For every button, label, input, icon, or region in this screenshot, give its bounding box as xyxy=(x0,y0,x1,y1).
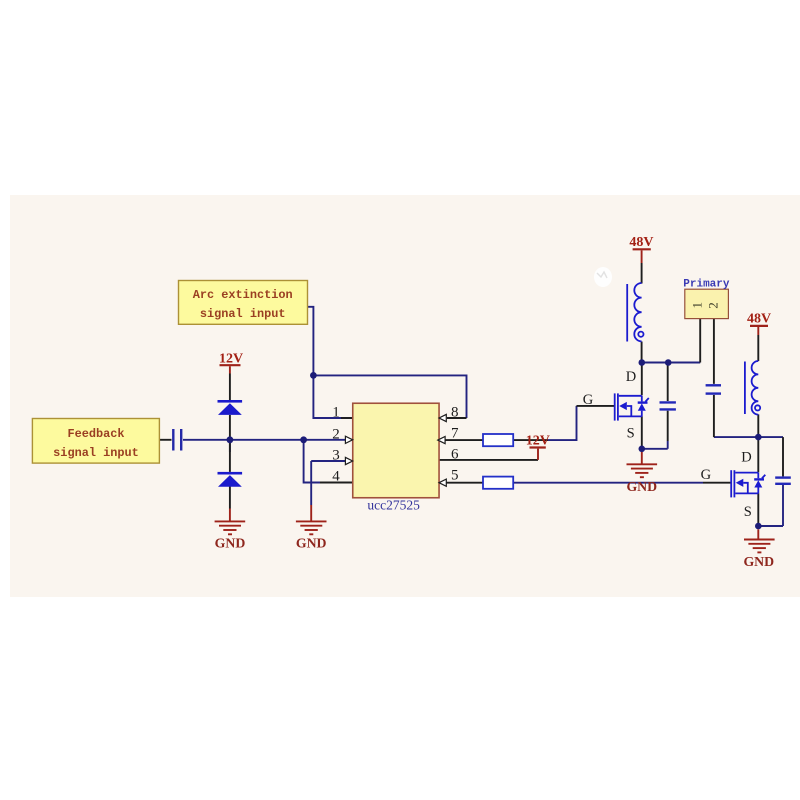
svg-text:1: 1 xyxy=(690,302,705,309)
svg-text:signal input: signal input xyxy=(200,307,286,321)
svg-text:48V: 48V xyxy=(629,235,653,250)
svg-text:GND: GND xyxy=(626,479,657,494)
svg-text:S: S xyxy=(744,504,752,520)
svg-text:G: G xyxy=(583,392,594,408)
svg-text:D: D xyxy=(626,369,636,385)
svg-text:D: D xyxy=(741,450,751,466)
svg-text:ucc27525: ucc27525 xyxy=(367,498,420,513)
svg-text:GND: GND xyxy=(215,536,246,551)
svg-text:2: 2 xyxy=(332,426,340,442)
svg-text:6: 6 xyxy=(451,446,459,462)
svg-text:48V: 48V xyxy=(747,311,771,326)
svg-text:12V: 12V xyxy=(219,352,243,367)
svg-text:Primary: Primary xyxy=(683,279,730,291)
svg-text:Feedback: Feedback xyxy=(67,427,124,441)
svg-text:G: G xyxy=(701,467,712,483)
svg-text:signal input: signal input xyxy=(53,446,139,460)
svg-text:GND: GND xyxy=(296,536,327,551)
svg-text:4: 4 xyxy=(332,469,340,485)
svg-text:2: 2 xyxy=(706,302,721,309)
svg-text:S: S xyxy=(627,425,635,441)
svg-text:Arc extinction: Arc extinction xyxy=(193,288,293,302)
svg-text:8: 8 xyxy=(451,405,459,421)
svg-text:3: 3 xyxy=(332,447,340,463)
svg-text:5: 5 xyxy=(451,468,459,484)
svg-text:GND: GND xyxy=(743,554,774,569)
svg-text:12V: 12V xyxy=(526,434,550,449)
svg-text:1: 1 xyxy=(332,405,340,421)
svg-text:7: 7 xyxy=(451,425,459,441)
